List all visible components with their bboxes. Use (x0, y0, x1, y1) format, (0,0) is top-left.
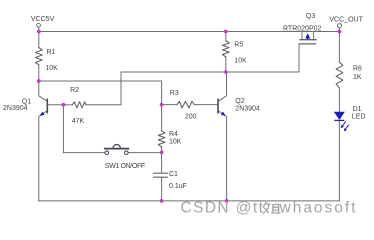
wire R4 bottom lead (161, 147, 163, 153)
svg-text:SW1 ON/OFF: SW1 ON/OFF (105, 163, 145, 170)
resistor R6 zigzag (336, 62, 343, 88)
node R1 bottom (37, 79, 41, 83)
wire R2 right lead to corner (86, 104, 121, 106)
svg-text:10K: 10K (234, 58, 247, 65)
svg-text:R2: R2 (70, 87, 79, 94)
resistor R1 zigzag (36, 48, 43, 65)
svg-text:R3: R3 (170, 90, 179, 97)
Q1 emitter arrow (40, 112, 45, 116)
node VCC_OUT (338, 30, 342, 34)
node VCC5V rail (37, 30, 41, 34)
wire vertical down into node(162,105) (161, 81, 163, 105)
wire Q1 base to node (47, 104, 63, 106)
wire C1 bottom lead (161, 177, 163, 201)
Q2 emitter arrow (221, 112, 226, 116)
power port VCC_OUT (338, 24, 342, 32)
wire Q3 drain stub (313, 32, 315, 40)
wire R1 bottom lead to node (38, 65, 40, 81)
wire bottom rail (39, 200, 340, 202)
resistor R4 zigzag (158, 131, 165, 147)
svg-text:0.1uF: 0.1uF (169, 183, 187, 190)
svg-text:1K: 1K (353, 74, 362, 81)
svg-text:47K: 47K (72, 118, 85, 125)
wire Q2 emitter down to bottom rail (218, 111, 227, 201)
wire Q2 collector (218, 72, 226, 101)
watermark CSDN @tt姐whaosoft (181, 200, 358, 217)
wire R3 left lead (162, 104, 177, 106)
transistor Q1 2N3904 (mirrored NPN) (40, 99, 48, 116)
node R3 left / R4 top (160, 103, 164, 107)
wire R1 top lead (38, 32, 40, 48)
svg-text:R6: R6 (353, 66, 362, 73)
svg-text:CSDN @tt: CSDN @tt (181, 200, 265, 217)
svg-text:10K: 10K (45, 65, 58, 72)
node R4 bottom / SW1 / C1 (160, 151, 164, 155)
wire R2 left lead (63, 104, 72, 106)
svg-text:Q2: Q2 (235, 98, 244, 105)
wire Q3 source stub (301, 32, 303, 40)
node R5 top (224, 30, 228, 34)
wire C1 top lead (161, 152, 163, 173)
node Q2 emitter rail (225, 199, 229, 203)
Q3 substrate arrow (305, 33, 310, 39)
wire to SW1 left pin (63, 152, 105, 154)
transistor Q2 2N3904 (NPN) (218, 99, 226, 116)
svg-text:D1: D1 (353, 106, 362, 113)
svg-text:R4: R4 (169, 131, 178, 138)
wire Q3 gate lead down (298, 44, 300, 72)
LED D1 (334, 112, 349, 132)
svg-text:2N3904: 2N3904 (3, 105, 28, 112)
node R5 bottom / Q2 collector / gate (224, 70, 228, 74)
wire node(39,81) to R3/R4 column (39, 80, 162, 82)
svg-text:2N3904: 2N3904 (235, 106, 260, 113)
svg-text:whaosoft: whaosoft (279, 200, 358, 217)
node C1 bottom rail (160, 199, 164, 203)
wire R6 to LED anode (338, 88, 340, 112)
wire vertical x121 up (120, 72, 122, 105)
wire Q1 emitter down to bottom rail (39, 111, 47, 201)
resistor R3 zigzag (177, 101, 194, 108)
svg-text:200: 200 (185, 114, 197, 121)
node Q1 base / R2 / switch branch (62, 103, 66, 107)
D1 light arrows (342, 122, 346, 127)
wire LED cathode to bottom rail (338, 121, 340, 201)
wire SW1 right pin to node (128, 152, 162, 154)
wire R4 top lead (161, 105, 163, 131)
resistor R5 zigzag (223, 41, 230, 57)
capacitor C1 plates (153, 172, 167, 174)
MOSFET Q3 RTR020P02 body (299, 40, 317, 44)
svg-text:VCC_OUT: VCC_OUT (329, 17, 363, 24)
wire feedback row y72 to gate column (121, 71, 299, 73)
power port VCC5V (37, 23, 41, 31)
svg-text:10K: 10K (169, 139, 182, 146)
svg-text:VCC5V: VCC5V (31, 16, 55, 23)
wire top rail VCC5V to VCC_OUT (39, 31, 340, 33)
svg-text:Q3: Q3 (306, 13, 315, 20)
resistor R2 zigzag (73, 102, 87, 108)
svg-text:C1: C1 (169, 171, 178, 178)
wire VCC_OUT column to R6 (338, 32, 340, 63)
wire Q1 collector (39, 81, 47, 101)
svg-text:R5: R5 (234, 42, 243, 49)
wire switch branch vertical from Q1 base node (62, 105, 64, 153)
svg-text:RTR020P02: RTR020P02 (283, 26, 322, 33)
wire R5 top lead (225, 32, 227, 41)
svg-text:R1: R1 (47, 49, 56, 56)
wire R3 right lead to Q2 base (194, 104, 218, 106)
switch SW1 pushbutton (104, 145, 129, 155)
wire R5 bottom lead (225, 57, 227, 72)
svg-text:LED: LED (352, 114, 366, 121)
